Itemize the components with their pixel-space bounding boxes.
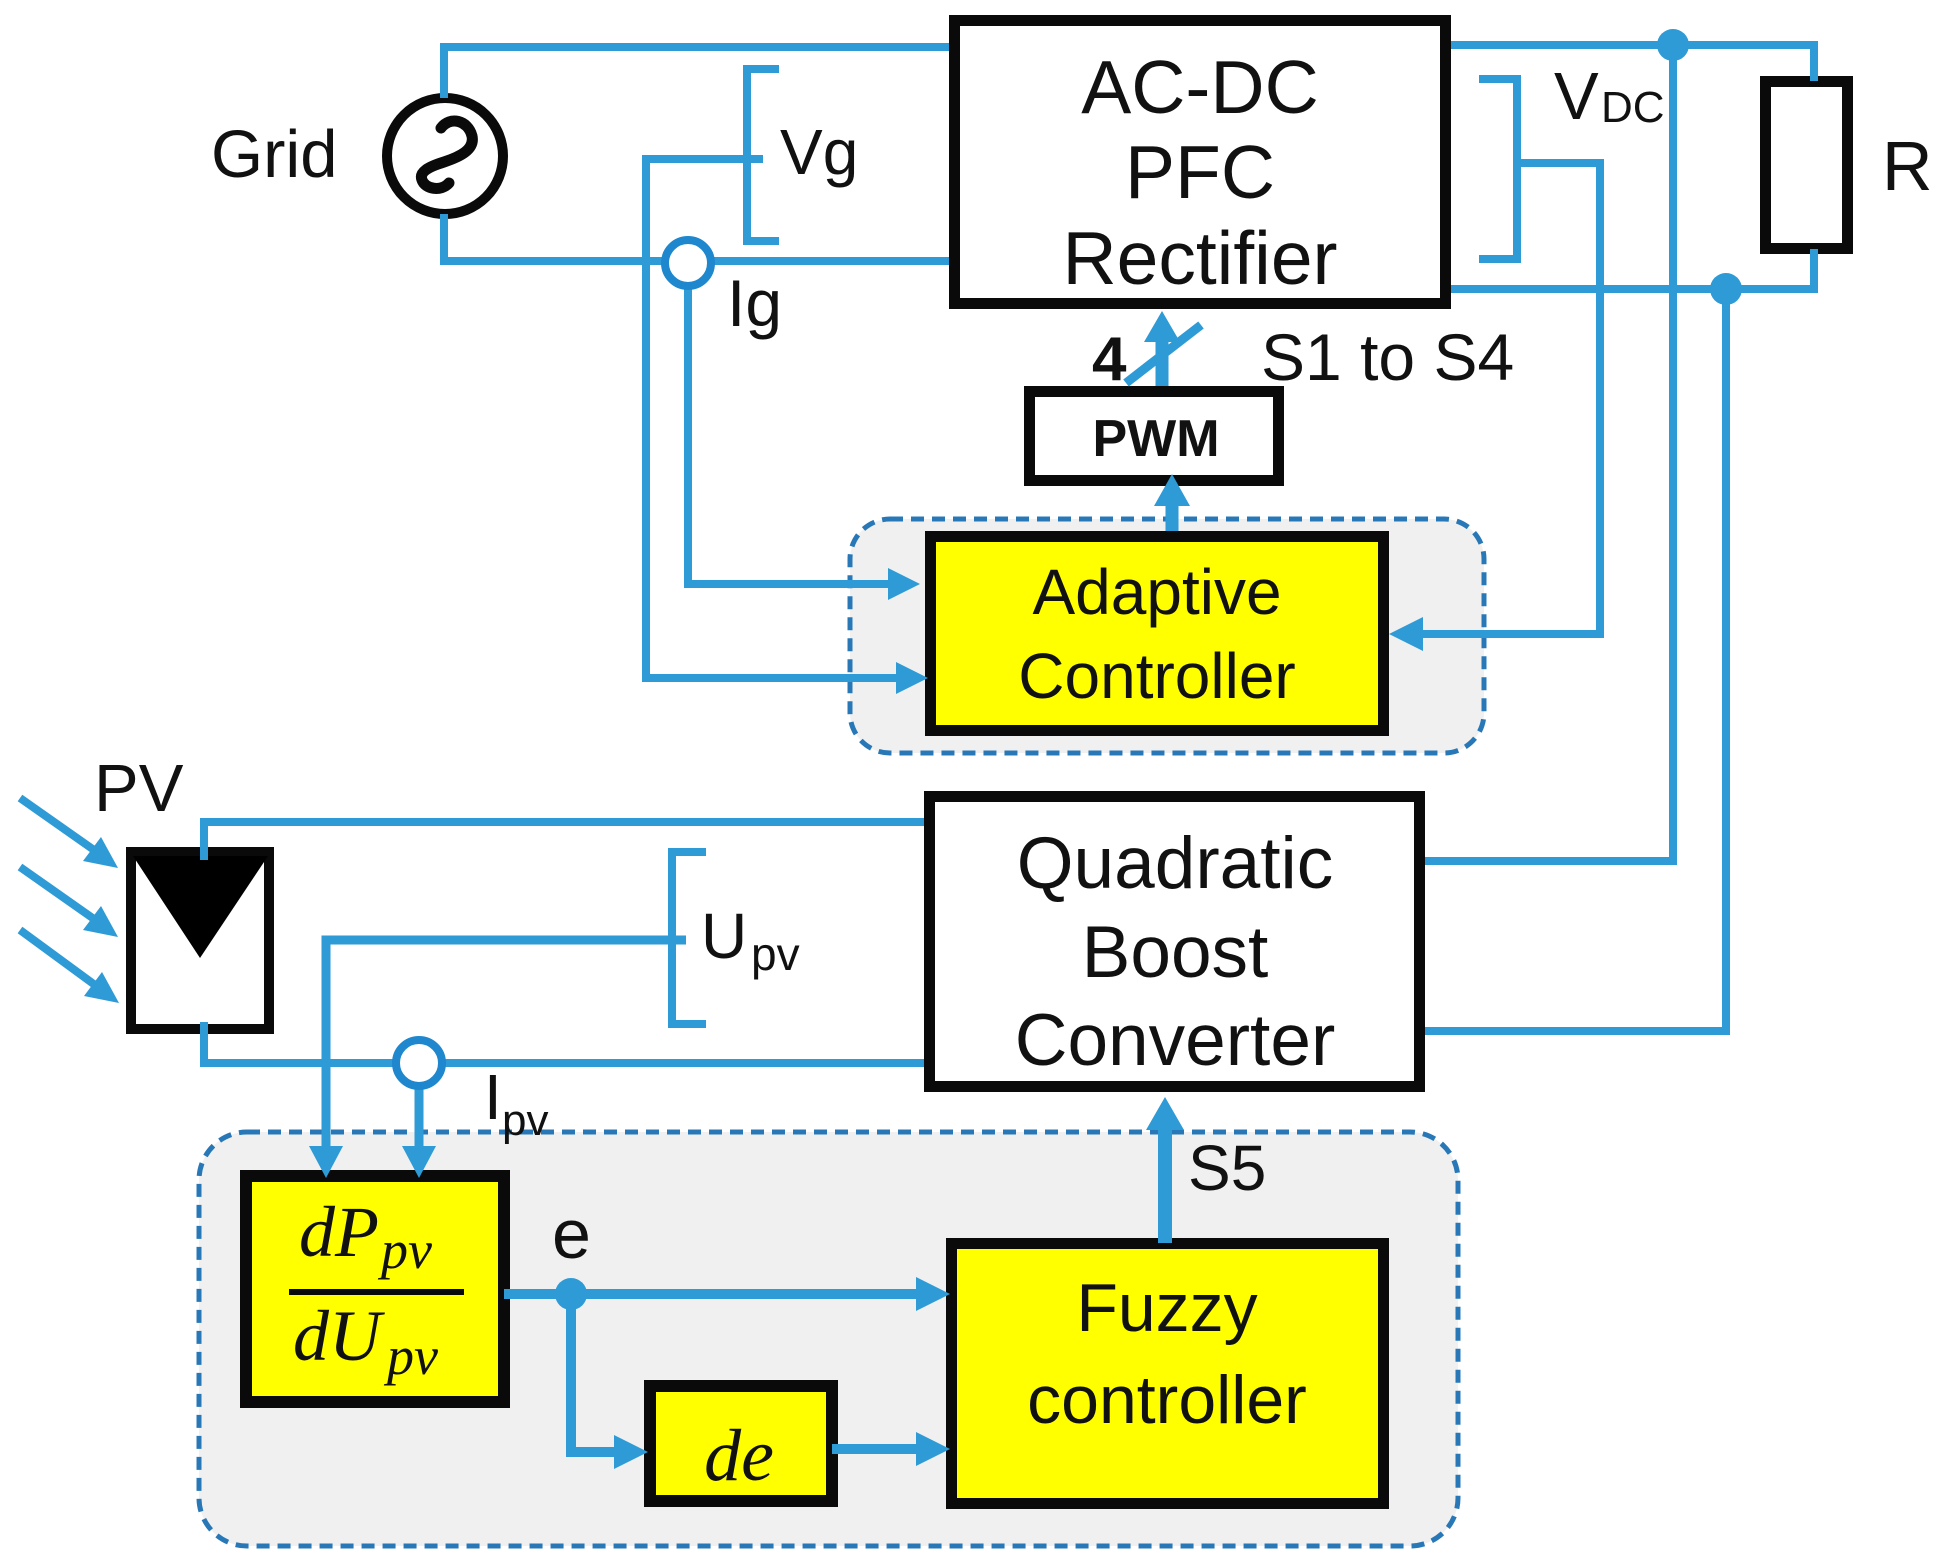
svg-text:pv: pv [377,1220,432,1280]
svg-text:Fuzzy: Fuzzy [1076,1270,1257,1346]
PV panel [131,852,269,1029]
PWM block [1030,392,1279,481]
svg-text:Vg: Vg [780,116,858,188]
current sensor Ig [665,240,711,286]
svg-text:controller: controller [1027,1362,1307,1438]
junction top DC bus [1657,29,1689,61]
svg-text:dU: dU [293,1296,385,1376]
resistor R [1766,82,1848,249]
value label dPpv/dUpv [289,1192,464,1386]
svg-text:I: I [484,1061,502,1133]
svg-text:AC-DC: AC-DC [1081,45,1319,129]
sun irradiance arrow 1 [20,798,118,868]
node e junction [555,1278,587,1310]
wire: error e to fuzzy controller [504,1277,950,1311]
wire: rectifier top output to R [1451,45,1814,81]
dP/dU MPPT derivative block [246,1176,504,1402]
junction bottom DC bus [1710,273,1742,305]
wire: Upv sense down to dP/dU block [309,940,686,1178]
svg-text:pv: pv [502,1096,548,1145]
wire: e branch to de block [571,1294,648,1469]
wire: S5 gate drive fuzzy controller to quadratic boost converter [1146,1097,1184,1243]
wire: grid top to rectifier [444,47,949,98]
bracket Upv [672,852,706,1024]
svg-text:S5: S5 [1188,1132,1266,1204]
wire: DC bus top down to quadratic boost converter [1425,45,1673,861]
label Ig [727,266,782,340]
wire: adaptive controller to PWM [1154,474,1190,531]
dashed controller enclosure (adaptive) [850,519,1484,753]
label Upv [701,900,800,980]
label Vg [780,116,858,188]
svg-text:pv: pv [751,928,800,980]
svg-text:e: e [552,1195,591,1273]
label VDC [1554,59,1665,134]
wire: grid bottom to rectifier [444,214,949,261]
label Ipv [484,1061,548,1145]
label Grid [211,117,338,192]
svg-text:Boost: Boost [1082,912,1269,993]
wire: PV bottom to quadratic boost converter [204,1022,924,1063]
AC-DC PFC Rectifier block [955,21,1446,304]
svg-text:R: R [1882,127,1933,205]
svg-text:4: 4 [1092,325,1127,394]
wire: DC bus bottom down to quadratic boost converter [1425,289,1726,1031]
wire: PWM to rectifier gate drive [1144,311,1180,386]
svg-text:DC: DC [1601,83,1665,132]
svg-text:U: U [701,900,747,972]
svg-text:dP: dP [299,1192,379,1272]
svg-text:Rectifier: Rectifier [1062,216,1337,300]
wire: Ipv sense down to dP/dU block [402,1086,436,1178]
wire: Vg sense down to adaptive controller [646,159,928,694]
Quadratic Boost Converter block [930,797,1420,1087]
label R [1882,127,1933,205]
label S1 to S4 [1261,320,1514,394]
wire: rectifier bottom output to R [1451,249,1814,289]
current sensor Ipv [396,1040,442,1086]
svg-text:de: de [704,1415,774,1497]
Fuzzy controller block [952,1244,1384,1504]
dashed controller enclosure (MPPT fuzzy) [199,1132,1458,1546]
svg-text:PFC: PFC [1125,130,1275,214]
label e [552,1195,591,1273]
bracket Vg [747,69,779,241]
svg-text:Grid: Grid [211,117,338,192]
svg-text:S1 to S4: S1 to S4 [1261,320,1514,394]
bus width slash [1126,325,1201,383]
bracket VDC [1479,79,1517,259]
svg-text:Converter: Converter [1015,1000,1336,1081]
svg-text:V: V [1554,59,1599,134]
de block [650,1386,832,1501]
sun irradiance arrow 2 [20,867,118,937]
label PV [94,751,184,826]
svg-text:Quadratic: Quadratic [1017,823,1334,904]
svg-text:pv: pv [383,1326,438,1386]
svg-text:PWM: PWM [1092,410,1219,468]
svg-text:PV: PV [94,751,184,826]
wire: Ig sense down to adaptive controller [688,277,920,600]
AC source (grid) [387,98,503,214]
svg-text:Ig: Ig [727,266,782,340]
sun irradiance arrow 3 [20,930,119,1003]
wire: de to fuzzy controller [832,1432,950,1466]
label 4 [1092,325,1127,394]
wire: PV top to quadratic boost converter [204,822,924,860]
wire: VDC sense down to adaptive controller [1389,163,1600,651]
svg-text:Controller: Controller [1018,640,1295,712]
label S5 [1188,1132,1266,1204]
svg-text:Adaptive: Adaptive [1032,556,1281,628]
Adaptive Controller block [931,537,1384,731]
